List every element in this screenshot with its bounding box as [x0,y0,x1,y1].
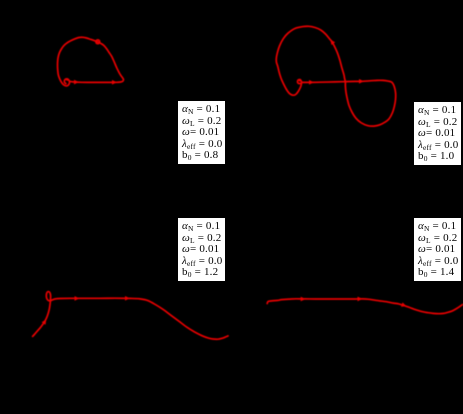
parameter box b0=0.8 (top-left plot) [177,100,226,165]
arrowhead curve3 b [75,296,80,301]
arrowhead curve3 a (pointing up-right) [42,318,49,325]
trajectory curve b0=1.2 (bottom-left plot) [33,292,228,340]
trajectory curve b0=1.0 (top-right plot) [276,26,395,126]
start dot curve2 [299,79,302,82]
parameter box b0=1.4 (bottom-right plot) [413,217,462,282]
circle marker on curve 1 [96,40,100,44]
arrowhead curve3 c [125,296,130,301]
arrowhead curve4 b [358,297,363,302]
arrowhead curve1 a [74,80,79,85]
arrowhead curve2 c (pointing up-left) [328,38,335,45]
arrowhead curve1 b [112,80,117,85]
arrowhead curve2 b [359,79,364,84]
arrowhead curve2 a [309,80,314,85]
start dot curve1 [66,78,69,81]
arrowhead curve4 c (pointing down-right) [401,302,407,308]
trajectory curve b0=0.8 (top-left plot) [58,37,124,86]
arrowhead curve4 a [301,297,306,302]
trajectory curve b0=1.4 (bottom-right plot) [267,299,463,314]
parameter box b0=1.0 (top-right plot) [413,101,462,166]
parameter box b0=1.2 (bottom-left plot) [177,217,226,282]
